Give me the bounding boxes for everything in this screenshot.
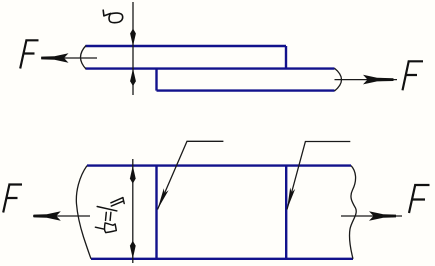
weld seam line right bbox=[285, 166, 287, 259]
dimension delta: lower arrowhead bbox=[130, 69, 136, 87]
force F (upper left) arrowhead bbox=[41, 53, 68, 63]
force F (upper right) arrow line bbox=[335, 79, 398, 81]
dimension b: lower arrowhead bbox=[130, 241, 136, 259]
leader to left weld seam: line bbox=[158, 141, 224, 209]
plate 1 left break arc bbox=[81, 46, 87, 70]
dimension delta: upper arrowhead bbox=[130, 29, 136, 47]
plan view: right break line bbox=[349, 166, 356, 259]
dimension b: line bbox=[132, 159, 134, 263]
weld seam line left bbox=[155, 166, 157, 259]
force F (lower right) arrowhead bbox=[369, 211, 396, 221]
plan view: left break line bbox=[76, 166, 91, 259]
force F (lower left) label bbox=[3, 185, 22, 213]
dimension b: upper arrowhead bbox=[130, 166, 136, 184]
dimension b: label b=l_n (rotated 90deg, drawn as strokes) bbox=[95, 198, 124, 233]
leader to right weld seam: arrowhead bbox=[287, 188, 295, 210]
force F (upper right) arrowhead bbox=[363, 75, 394, 85]
force F (lower left) arrow line bbox=[33, 215, 90, 217]
force F (upper left) label bbox=[20, 40, 38, 68]
plate 2 right break arc bbox=[335, 68, 342, 91]
force F (upper left) arrow line bbox=[41, 57, 97, 59]
plan view: top edge bbox=[87, 164, 351, 166]
plate 1 right end edge bbox=[285, 46, 287, 69]
plan view: bottom edge bbox=[91, 258, 353, 260]
dimension delta: extension line bbox=[132, 2, 134, 95]
force F (lower left) arrowhead bbox=[34, 211, 61, 221]
force F (lower right) arrow line bbox=[341, 215, 402, 217]
leader to right weld seam: line bbox=[287, 142, 350, 210]
plate 1 (upper strip, side view) top edge bbox=[86, 45, 287, 47]
dimension delta: label bbox=[103, 10, 122, 23]
leader to left weld seam: arrowhead bbox=[158, 188, 169, 209]
plate 2 (lower strip, side view) left end edge bbox=[155, 69, 157, 91]
plate 2 bottom edge bbox=[157, 89, 335, 91]
force F (upper right) label bbox=[403, 61, 424, 90]
force F (lower right) label bbox=[409, 185, 430, 213]
joint middle line (plate1 bottom / plate2 top) bbox=[86, 67, 335, 69]
